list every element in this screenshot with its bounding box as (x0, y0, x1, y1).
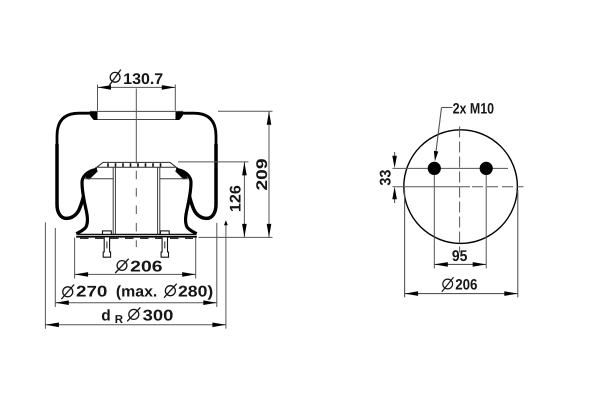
svg-text:R: R (115, 314, 124, 326)
svg-text:2x M10: 2x M10 (453, 100, 495, 117)
dim 209 line (268, 111, 270, 237)
dim ∅270 extensions (54, 228, 56, 307)
svg-text:270: 270 (76, 284, 107, 301)
dim ∅130.7 extension lines (97, 85, 99, 111)
dim ∅206 extensions (74, 238, 76, 279)
svg-text:280): 280) (178, 284, 213, 301)
dim 33 (377, 152, 397, 203)
top bead plate bottom line (94, 119, 179, 121)
dim ∅270 line (55, 302, 217, 304)
dim dR300 line (45, 324, 226, 326)
piston bowl edge line right (160, 178, 188, 180)
126 arrows (242, 162, 247, 176)
label ∅270 (max. ∅280) (61, 284, 213, 301)
vertical dashed centerline (459, 127, 461, 253)
bolt hole dot right (480, 162, 493, 175)
dim ∅130.7 line (98, 86, 176, 88)
bolt holes line (393, 167, 509, 169)
bellows pinch bump left (85, 167, 97, 180)
piston wall right (176, 169, 197, 233)
dim 95 (434, 248, 486, 267)
bottom plate top line (77, 233, 197, 235)
centerline of left view (135, 89, 137, 164)
stud head right (160, 231, 169, 235)
bottom plate bottom line (76, 236, 197, 238)
dim ∅206 right view (405, 190, 518, 297)
dim 126 top extension (178, 161, 249, 163)
horizontal dashed centerline (right part) (472, 186, 524, 188)
dim dR300 extensions (44, 222, 46, 328)
bolt hole extension left (433, 168, 435, 268)
svg-text:209: 209 (254, 158, 271, 190)
svg-text:(max.: (max. (116, 284, 157, 301)
svg-text:300: 300 (143, 308, 174, 325)
svg-text:206: 206 (130, 259, 163, 276)
plate circle (404, 130, 518, 244)
dim ∅206 line (75, 273, 196, 275)
piston plate serration ticks (108, 163, 161, 167)
∅270 arrows (55, 300, 69, 305)
top bead plate tangent line (90, 110, 183, 112)
bead plate clamp wedge left (89, 112, 98, 120)
svg-text:33: 33 (377, 169, 394, 185)
dim 209 top extension (218, 110, 273, 112)
209 arrows (267, 111, 272, 125)
bellows outline top right (177, 113, 217, 146)
svg-text:d: d (101, 308, 110, 325)
piston bowl edge line left (85, 178, 113, 180)
stud shaft and foot right (161, 237, 168, 257)
arrowheads left view (45, 85, 271, 327)
bellows outline top left (57, 113, 97, 146)
svg-text:95: 95 (452, 248, 468, 265)
bead plate clamp wedge right (176, 112, 185, 120)
bottom reference extension (199, 236, 273, 238)
piston top plate (97, 162, 177, 167)
svg-text:206: 206 (455, 277, 477, 294)
∅206 arrows (75, 272, 89, 277)
bolt hole extension right (485, 168, 487, 268)
leader 2x M10 (434, 100, 494, 161)
bellows wall and lobe left (57, 144, 84, 218)
piston inner column left (112, 167, 114, 234)
dim 126 line (243, 162, 245, 238)
piston inner column right (157, 167, 159, 234)
svg-text:126: 126 (227, 185, 244, 212)
bolt hole dot left (428, 162, 441, 175)
stud shaft and foot left (103, 237, 110, 257)
stud head left (103, 231, 112, 235)
∅130.7 arrows (98, 85, 112, 90)
label ∅206 bottom (115, 259, 163, 276)
bellows pinch bump right (175, 167, 187, 180)
bottom plate serration (80, 237, 193, 239)
horizontal centerline solid part (33 dim extension) (393, 186, 471, 188)
bellows wall and lobe right (190, 144, 217, 218)
label dR ∅300 (101, 307, 173, 325)
label ∅130.7 (109, 70, 163, 88)
dR300 arrows (45, 323, 59, 328)
svg-text:130.7: 130.7 (123, 71, 163, 88)
piston wall left (76, 169, 97, 233)
small up arrow on dR300 right extension (224, 220, 228, 225)
